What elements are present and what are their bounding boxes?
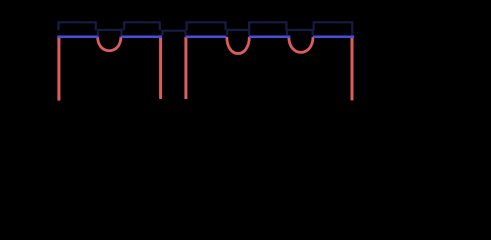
wire: blue bus segment 2 xyxy=(121,35,162,38)
wire: navy bump B (rectangular hop) xyxy=(124,22,160,30)
wire: navy bridge 1 (low bar over arc gap 1) xyxy=(98,30,122,35)
wire: red hop arc 2 (under blue bus) xyxy=(227,37,250,54)
wire: red vertical stub V4 xyxy=(351,37,354,101)
wire: navy bump C (rectangular hop) xyxy=(187,22,226,30)
wire: blue bus segment 5 xyxy=(313,35,354,38)
wire: navy bump E (rectangular hop) xyxy=(314,22,353,36)
wire: red vertical stub V1 xyxy=(57,37,60,101)
wire: red vertical stub V3 xyxy=(184,37,187,99)
wire: red vertical stub V2 xyxy=(159,37,162,99)
wire: blue bus segment 1 xyxy=(57,35,98,38)
wire: blue bus segment 3 xyxy=(186,35,227,38)
wire: navy bump D (rectangular hop) xyxy=(249,22,286,30)
wire: navy bump A (rectangular hop) xyxy=(58,22,95,30)
wire: red hop arc 3 (under blue bus) xyxy=(289,37,313,53)
wire: navy gap bar (low bar between vertical stubs) xyxy=(162,31,185,36)
wire: navy bridge 3 (low bar over arc gap 3) xyxy=(287,30,313,35)
wire: navy bridge 2 (low bar over arc gap 2) xyxy=(227,30,249,35)
wire: blue bus segment 4 xyxy=(249,35,290,38)
wire: red hop arc 1 (under blue bus) xyxy=(98,37,121,51)
